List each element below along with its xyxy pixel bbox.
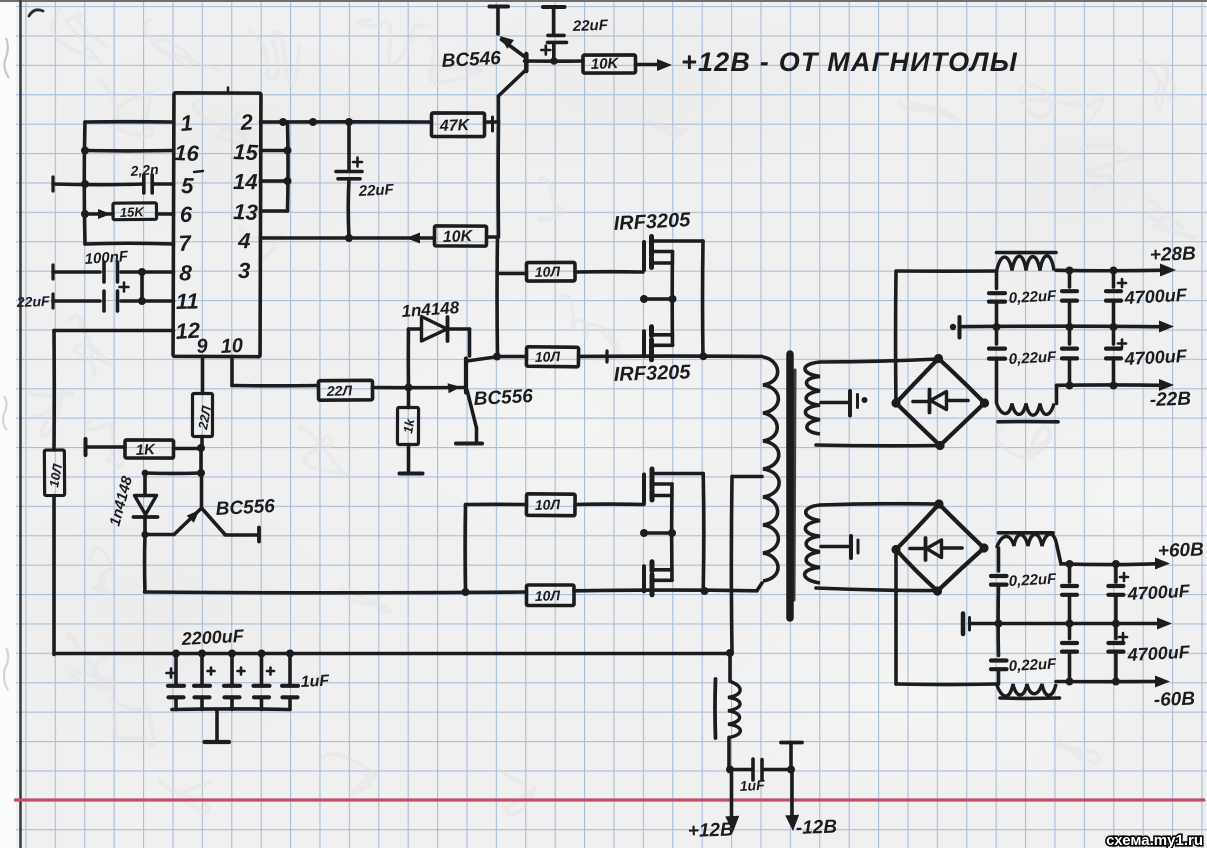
- svg-text:BC546: BC546: [441, 48, 502, 72]
- svg-text:IRF3205: IRF3205: [613, 209, 692, 235]
- svg-text:10K: 10K: [591, 55, 620, 73]
- svg-text:1n4148: 1n4148: [401, 298, 460, 321]
- svg-text:4700uF: 4700uF: [1123, 285, 1188, 308]
- svg-text:3: 3: [238, 258, 250, 283]
- svg-text:0,22uF: 0,22uF: [1008, 348, 1057, 368]
- svg-text:10Л: 10Л: [535, 496, 561, 513]
- svg-text:+60В: +60В: [1157, 539, 1204, 562]
- svg-text:13: 13: [233, 199, 259, 225]
- svg-text:BC556: BC556: [473, 386, 534, 410]
- svg-text:0,22uF: 0,22uF: [1008, 655, 1057, 675]
- svg-text:1uF: 1uF: [739, 777, 765, 794]
- svg-text:1uF: 1uF: [300, 672, 331, 691]
- svg-text:10Л: 10Л: [535, 348, 561, 365]
- svg-text:4700uF: 4700uF: [1126, 642, 1191, 665]
- svg-text:22uF: 22uF: [16, 293, 51, 310]
- svg-text:15: 15: [233, 139, 259, 165]
- svg-text:1K: 1K: [135, 441, 156, 459]
- svg-text:2200uF: 2200uF: [180, 626, 245, 649]
- svg-text:10Л: 10Л: [535, 263, 561, 280]
- svg-text:схема.my1.ru: схема.my1.ru: [1106, 832, 1203, 848]
- svg-text:16: 16: [174, 140, 200, 166]
- svg-text:0,22uF: 0,22uF: [1008, 570, 1057, 590]
- svg-text:4700uF: 4700uF: [1123, 346, 1188, 369]
- svg-text:1: 1: [180, 110, 194, 136]
- svg-text:-60В: -60В: [1153, 689, 1195, 711]
- svg-text:22uF: 22uF: [572, 17, 609, 35]
- svg-text:0,22uF: 0,22uF: [1008, 287, 1057, 307]
- svg-text:47K: 47K: [439, 117, 471, 135]
- svg-text:14: 14: [233, 169, 258, 194]
- svg-text:-12В: -12В: [795, 817, 837, 839]
- svg-text:+12В - ОТ МАГНИТОЛЫ: +12В - ОТ МАГНИТОЛЫ: [681, 47, 1018, 77]
- svg-text:10: 10: [220, 335, 243, 358]
- svg-text:8: 8: [179, 260, 194, 286]
- svg-text:15K: 15K: [120, 204, 146, 220]
- svg-text:IRF3205: IRF3205: [613, 361, 691, 386]
- svg-text:5: 5: [181, 173, 195, 198]
- svg-text:22Л: 22Л: [326, 382, 353, 399]
- svg-text:+12В: +12В: [687, 819, 734, 842]
- svg-text:2: 2: [239, 109, 254, 135]
- svg-text:4700uF: 4700uF: [1126, 581, 1191, 604]
- svg-text:6: 6: [180, 202, 194, 227]
- svg-text:2,2n: 2,2n: [129, 161, 159, 179]
- svg-text:100nF: 100nF: [84, 248, 129, 268]
- svg-text:10K: 10K: [443, 228, 474, 246]
- svg-text:11: 11: [176, 288, 199, 314]
- svg-text:10Л: 10Л: [535, 587, 561, 604]
- svg-text:+28В: +28В: [1149, 243, 1196, 266]
- svg-text:4: 4: [237, 228, 251, 253]
- svg-text:-22В: -22В: [1149, 389, 1191, 411]
- svg-text:22uF: 22uF: [357, 181, 395, 200]
- svg-text:BC556: BC556: [215, 496, 276, 520]
